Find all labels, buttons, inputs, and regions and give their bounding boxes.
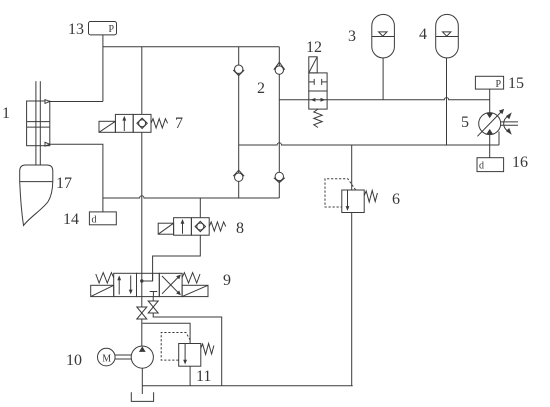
valve 9 right spring bbox=[182, 273, 200, 283]
cylinder 1 bottom port arrow bbox=[45, 142, 50, 146]
box 16 displacement sensor bbox=[477, 158, 504, 172]
cylinder 1 rod bbox=[35, 81, 37, 165]
valve 12 top square blocked ports bbox=[309, 81, 314, 83]
svg-text:d: d bbox=[92, 214, 97, 225]
valve 9 left spring bbox=[96, 273, 114, 283]
valve 9 right square crossed arrows bbox=[162, 276, 179, 294]
valve 6 pilot dashed bbox=[325, 179, 356, 207]
load 17 teardrop bbox=[20, 165, 53, 182]
svg-text:15: 15 bbox=[508, 75, 524, 92]
valve 7 body bbox=[115, 114, 133, 132]
box 15 pressure sensor bbox=[475, 76, 503, 89]
valve 9 body bbox=[114, 273, 137, 296]
wire: top bus y47 bbox=[102, 35, 104, 102]
valve 8 body bbox=[174, 218, 192, 236]
wire: bus3 y198 bbox=[103, 196, 279, 198]
motor 5 rotation arrows bbox=[504, 117, 508, 131]
pressure valve 6 bbox=[342, 190, 364, 213]
wire: pump suction to tank bbox=[141, 368, 143, 394]
load 17 fill line bbox=[20, 181, 53, 183]
wire: accumulator 4 drop line bbox=[446, 58, 448, 145]
valve 12 solenoid box bbox=[309, 57, 317, 73]
electric motor 10 bbox=[98, 348, 116, 366]
cylinder 1 piston bbox=[27, 121, 50, 123]
valve 11 spring bbox=[201, 344, 214, 355]
wire: bridge left vertical x238.7 bbox=[238, 47, 240, 198]
wire: valve9 T port through shutoff to drain bbox=[152, 297, 154, 301]
check bridge 2: bottom-right check bbox=[274, 172, 285, 183]
box 13 pressure sensor bbox=[89, 22, 117, 35]
pump 10 circle bbox=[131, 346, 153, 368]
svg-text:P: P bbox=[109, 24, 115, 35]
svg-text:7: 7 bbox=[175, 115, 183, 132]
valve 12 spring bbox=[314, 109, 322, 127]
cylinder 1 top port arrow bbox=[45, 100, 50, 104]
wire: valve6 inlet from bus2 bbox=[351, 145, 353, 190]
svg-text:P: P bbox=[496, 79, 502, 90]
motor 5 variable arrow bbox=[477, 111, 502, 136]
svg-text:10: 10 bbox=[66, 352, 82, 369]
svg-text:16: 16 bbox=[512, 154, 528, 171]
svg-text:13: 13 bbox=[68, 21, 84, 38]
pump 10 out triangle bbox=[139, 346, 146, 352]
svg-text:9: 9 bbox=[223, 272, 231, 289]
motor 5 top triangle bbox=[486, 113, 493, 118]
svg-text:1: 1 bbox=[2, 105, 10, 122]
svg-text:2: 2 bbox=[257, 80, 265, 97]
wire: valve6 outlet down bbox=[351, 213, 353, 386]
svg-text:17: 17 bbox=[56, 175, 72, 192]
svg-text:d: d bbox=[479, 161, 484, 172]
svg-text:5: 5 bbox=[461, 114, 469, 131]
wire: relief valve 11 outlet bbox=[189, 366, 191, 386]
wire: relief valve 11 inlet bbox=[142, 323, 190, 343]
relief valve 11 bbox=[179, 344, 201, 367]
motor 5 circle bbox=[479, 113, 501, 135]
check bridge 2: top-left check bbox=[233, 65, 244, 76]
svg-text:4: 4 bbox=[419, 26, 427, 43]
valve 7 spring bbox=[151, 119, 168, 128]
motor-pump shaft bbox=[115, 354, 131, 356]
svg-text:11: 11 bbox=[196, 368, 211, 385]
valve 8 left square up arrow bbox=[182, 221, 184, 234]
shutoff valve right bbox=[148, 301, 158, 307]
box 14 displacement sensor bbox=[89, 212, 116, 225]
wire: valve7 vertical line x141.8 bbox=[141, 47, 143, 115]
svg-text:3: 3 bbox=[348, 28, 356, 45]
tank symbol bbox=[131, 392, 153, 401]
valve 9 center blocked port bbox=[150, 291, 158, 293]
accumulator 3 bbox=[372, 14, 395, 58]
wire: box15 to motor line bbox=[489, 89, 491, 113]
wire: valve8 riser x200.3 bbox=[199, 198, 201, 218]
wire: motor bottom to box16 bbox=[489, 135, 491, 158]
valve 9 center square paths bbox=[140, 279, 143, 282]
cylinder 1 body bbox=[27, 101, 50, 146]
valve 12 bottom square double arrow bbox=[309, 99, 327, 101]
valve 8 solenoid box bbox=[158, 223, 173, 234]
wire: accumulator 3 drop line bbox=[382, 58, 384, 100]
svg-text:14: 14 bbox=[63, 211, 79, 228]
check bridge 2: bottom-left check bbox=[233, 170, 244, 181]
wire: bus2 y145 bbox=[239, 143, 499, 145]
svg-text:8: 8 bbox=[236, 220, 244, 237]
valve 12 body bbox=[309, 73, 327, 91]
valve 9 left solenoid box bbox=[91, 285, 114, 296]
svg-text:12: 12 bbox=[306, 39, 322, 56]
motor 5 shaft bbox=[500, 121, 518, 123]
wire: bus2 end up to motor bbox=[498, 132, 500, 146]
svg-text:M: M bbox=[102, 354, 111, 365]
wire: bridge right vertical x279.3 bbox=[278, 47, 280, 198]
wire: cylinder bottom port line bbox=[50, 144, 103, 212]
accumulator 4 bbox=[436, 14, 459, 58]
valve 9 left square arrows bbox=[118, 278, 120, 295]
valve 11 pilot dashed bbox=[161, 333, 190, 361]
wire: valve8 outlet jog to valve9 bbox=[153, 235, 201, 281]
shutoff valve left bbox=[137, 307, 147, 313]
valve 9 right solenoid box bbox=[182, 285, 208, 296]
valve 8 spring bbox=[209, 222, 226, 231]
wire: bottom bus y385.7 bbox=[142, 385, 352, 387]
check bridge 2: top-right check bbox=[274, 62, 285, 74]
valve 7 solenoid box bbox=[99, 121, 115, 132]
motor 5 bottom triangle bbox=[486, 129, 493, 134]
svg-text:6: 6 bbox=[392, 191, 400, 208]
valve 6 spring bbox=[364, 191, 377, 203]
wire: cylinder top port line bbox=[50, 101, 103, 103]
wire: bus1 y99.8 bbox=[279, 99, 309, 101]
wire: valve9 P port to pump bbox=[141, 297, 143, 307]
valve 7 left square up arrow bbox=[123, 118, 125, 131]
valve 8 check: diamond and ball bbox=[195, 221, 205, 231]
valve 7 check: diamond and ball bbox=[137, 118, 147, 128]
